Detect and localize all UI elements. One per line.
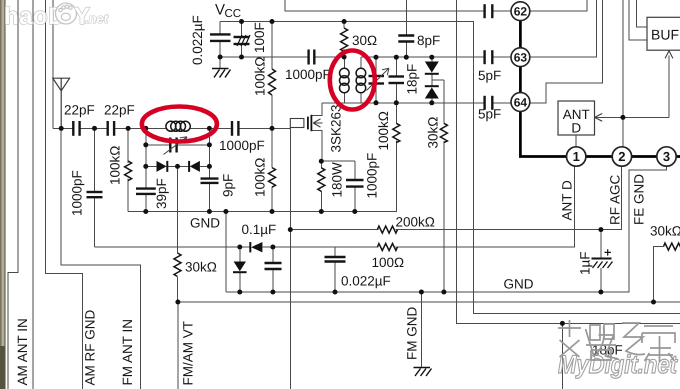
capacitor 5pF pin64 xyxy=(485,96,493,110)
wire gate bead line down xyxy=(289,128,291,389)
wire cap273 top lead xyxy=(272,247,274,263)
wire 180W bottom lead xyxy=(320,191,322,212)
pin 3 xyxy=(657,147,676,166)
wire drop below cap to 100ohm row xyxy=(94,197,96,247)
wire 5pF64 to pin64 xyxy=(492,102,511,104)
svg-text:BUFF: BUFF xyxy=(651,27,680,43)
wire varactor row left xyxy=(146,165,157,167)
capacitor 18pF xyxy=(389,77,405,84)
svg-text:.net: .net xyxy=(85,11,109,26)
svg-text:RF AGC: RF AGC xyxy=(608,174,623,225)
wire 100F trimmer top lead xyxy=(241,22,243,37)
capacitor at 273 xyxy=(265,263,282,269)
svg-text:1µF: 1µF xyxy=(578,251,593,275)
wire 100k VCC top lead xyxy=(271,22,273,70)
capacitor 0.022uF bottom xyxy=(325,257,346,262)
wire source row xyxy=(321,160,355,162)
svg-text:AM ANT IN: AM ANT IN xyxy=(15,318,30,385)
wire var-cap bottom xyxy=(375,84,377,103)
capacitor 22pF #1 xyxy=(73,121,79,136)
svg-text:100kΩ: 100kΩ xyxy=(108,146,123,185)
svg-text:V: V xyxy=(215,2,225,19)
wire varactor pair mid link xyxy=(431,74,433,86)
svg-text:1000pF: 1000pF xyxy=(70,170,85,216)
resistor 100k VCC upper xyxy=(269,69,276,95)
svg-text:GND: GND xyxy=(504,277,534,292)
wire tank right vertical xyxy=(208,128,210,178)
wire cap1 to cap2 xyxy=(80,127,108,129)
svg-text:100kΩ: 100kΩ xyxy=(376,111,391,150)
resistor 30k right edge xyxy=(664,243,680,250)
wire FM ANT IN bus xyxy=(61,128,140,389)
capacitor 5pF pin62 xyxy=(485,4,493,18)
diode on 100ohm row xyxy=(250,242,262,252)
resistor 100k lower xyxy=(269,168,276,188)
svg-text:39pF: 39pF xyxy=(154,178,169,209)
wire trimmer row right xyxy=(177,144,210,146)
varactor top right pair xyxy=(425,62,439,74)
svg-text:FM/AM VT: FM/AM VT xyxy=(181,321,196,386)
wire coil to 1000pF xyxy=(190,127,232,129)
wire 1000pF antenna drop xyxy=(94,128,96,192)
varactor D2 right xyxy=(189,161,200,172)
wire 1uF top lead xyxy=(600,230,602,259)
wire RF AGC line xyxy=(622,0,624,147)
wire 18pF top xyxy=(395,57,397,76)
resistor 30ohm xyxy=(341,28,348,52)
varactor to gnd xyxy=(233,262,247,273)
pin 62 xyxy=(511,2,530,21)
svg-text:0.022µF: 0.022µF xyxy=(341,274,391,289)
wire source cap bottom lead xyxy=(354,187,356,212)
resistor 30k varactor right xyxy=(440,123,447,142)
wire 30k varline upper xyxy=(443,80,445,123)
wire varactor tap to 30k xyxy=(432,79,444,81)
wire 5pF63 to pin63 xyxy=(492,56,511,58)
svg-text:100kΩ: 100kΩ xyxy=(253,57,268,96)
wire 100k(18p) to 64 rail xyxy=(395,103,397,124)
svg-text:D: D xyxy=(571,121,581,136)
wire var-cap drop xyxy=(375,57,377,76)
wire 64 drain rail xyxy=(322,102,485,104)
watermark CJK shuma zhijia xyxy=(558,320,675,362)
svg-text:FM ANT IN: FM ANT IN xyxy=(120,319,135,386)
capacitor 5pF pin63 xyxy=(485,50,493,64)
wire bus 2 xyxy=(32,0,34,389)
wire cap2 to coil L1 xyxy=(114,127,166,129)
svg-text:FE GND: FE GND xyxy=(632,174,647,225)
wire pin64 right riser xyxy=(530,0,603,103)
resistor 100k tank xyxy=(125,161,132,181)
wire trimmer row left xyxy=(146,144,171,146)
resistor 180W xyxy=(318,168,325,191)
wire 0.022uF bottom lead xyxy=(334,262,336,293)
varactor D1 left xyxy=(157,161,168,172)
wire 0.022uF top lead xyxy=(334,247,336,257)
wire left winding bottom lead xyxy=(343,94,345,103)
svg-text:22pF: 22pF xyxy=(104,103,135,118)
svg-text:30Ω: 30Ω xyxy=(352,33,377,48)
inductor L1 FM coil xyxy=(166,121,190,131)
BUFF box xyxy=(647,17,680,58)
transformer left winding xyxy=(340,68,350,93)
svg-text:3SK263: 3SK263 xyxy=(329,104,344,152)
capacitor 8pF xyxy=(398,36,414,42)
svg-text:30kΩ: 30kΩ xyxy=(650,224,680,239)
svg-text:0.022µF: 0.022µF xyxy=(190,15,205,65)
resistor 30k varactor tap xyxy=(174,253,181,276)
wire 1uF bottom lead xyxy=(600,268,602,292)
capacitor 1000pF antenna xyxy=(87,192,103,197)
highlight ellipse 2 red xyxy=(330,51,375,110)
ground below 0.022uF xyxy=(212,69,231,78)
trimmer capacitor tank xyxy=(170,138,176,153)
wire 100-ohm row right part to pin1 xyxy=(396,166,575,247)
wire 18pF bottom drop xyxy=(561,323,563,389)
pin 1 xyxy=(567,147,586,166)
variable cap arrow xyxy=(367,68,390,90)
wire cap62 to pin62 xyxy=(492,10,511,12)
resistor 200k xyxy=(377,226,397,233)
wire 100k tank drop xyxy=(127,128,129,163)
wire drain riser xyxy=(311,103,322,116)
wire AM ANT IN bus xyxy=(8,0,18,389)
transistor Q1 3SK263 xyxy=(290,115,322,131)
svg-text:30kΩ: 30kΩ xyxy=(426,117,441,149)
trimmer capacitor 100F xyxy=(234,37,250,44)
svg-text:1000pF: 1000pF xyxy=(219,138,265,153)
svg-text:18pF: 18pF xyxy=(405,64,420,95)
svg-text:CC: CC xyxy=(225,8,242,20)
capacitor 1000pF source xyxy=(346,180,364,187)
wire BUFF bottom arrow line xyxy=(668,56,670,118)
scan edge beige strip xyxy=(0,0,5,389)
wire BUFF feed 1 xyxy=(629,0,647,40)
wire 30k right edge xyxy=(654,247,664,302)
pin 63 xyxy=(511,48,530,67)
svg-text:GND: GND xyxy=(190,216,220,231)
wire tank right below 9pF xyxy=(208,183,210,212)
capacitor 39pF xyxy=(136,189,156,194)
wire FM/AM VT line down xyxy=(177,302,179,389)
svg-text:9pF: 9pF xyxy=(221,174,236,197)
wire varactor pair bottom lead xyxy=(431,99,433,103)
wire FM GND drop xyxy=(420,292,422,367)
capacitor 0.022uF VCC xyxy=(210,34,231,41)
capacitor 9pF xyxy=(201,179,219,183)
trimmer arrow xyxy=(164,137,188,155)
wire VCC left leg to 0.022uF xyxy=(219,22,221,35)
ANT D box xyxy=(558,101,602,135)
antenna xyxy=(53,78,70,128)
wire 200k row right to pin2 xyxy=(396,167,622,230)
wire 30ohm bottom lead xyxy=(343,49,345,57)
pin 64 xyxy=(511,93,530,112)
wire source lead xyxy=(311,130,322,161)
wire FM/AM VT rail xyxy=(178,301,680,303)
svg-text:100Ω: 100Ω xyxy=(372,255,405,270)
wire 30k varline lower to 292 rail xyxy=(443,141,445,292)
pin 2 xyxy=(612,147,631,166)
svg-text:1000pF: 1000pF xyxy=(365,153,380,199)
wire bypass cap to 30ohm node xyxy=(314,56,344,58)
capacitor 1000pF gate xyxy=(232,121,238,136)
wire FM antenna line xyxy=(53,127,73,129)
wire 8pF top xyxy=(405,0,407,36)
wire gate node down to 100k2 xyxy=(271,128,273,167)
wire 100F trimmer bottom lead xyxy=(241,44,243,57)
bold spine 62-63-64 to pins 1-3 xyxy=(520,20,680,157)
wire cap273 bottom lead xyxy=(272,269,274,292)
wire 1000pF to gate bead xyxy=(238,127,290,129)
highlight ellipse 1 red xyxy=(142,107,217,142)
wire 100-ohm row left part xyxy=(95,246,251,248)
wire GND 292 rail with FE GND riser xyxy=(226,166,667,292)
wire bus 4 to antenna node xyxy=(52,0,54,128)
wire pin63 right riser xyxy=(530,0,597,57)
svg-text:180W: 180W xyxy=(330,162,345,198)
svg-text:1000pF: 1000pF xyxy=(285,67,331,82)
wire varactor-to-gnd top lead xyxy=(239,247,241,262)
wire ANT D box lead xyxy=(575,135,577,147)
wire below 100k to GND rail xyxy=(127,179,129,212)
svg-text:0.1µF: 0.1µF xyxy=(242,222,277,237)
wire top line to 323 rail xyxy=(457,0,680,323)
svg-text:100F: 100F xyxy=(252,22,267,53)
ground FM GND xyxy=(414,368,432,377)
wire 63 rail xyxy=(361,56,485,58)
wire VCC bypass rail xyxy=(220,56,309,58)
svg-text:200kΩ: 200kΩ xyxy=(396,215,435,230)
capacitor 1000pF VCC bypass xyxy=(309,50,315,65)
capacitor 22pF #2 xyxy=(108,121,114,136)
wire VCC rail and right drop to 313 rail xyxy=(220,22,680,314)
wire GND rail xyxy=(128,141,396,212)
wire 8pF bottom xyxy=(405,42,407,58)
wire varactor-to-gnd bottom lead xyxy=(239,272,241,292)
wire AM RF GND bus xyxy=(46,0,83,389)
svg-text:8pF: 8pF xyxy=(417,33,440,48)
svg-text:100kΩ: 100kΩ xyxy=(253,158,268,197)
wire BUFF feed 2 xyxy=(637,0,648,27)
wire varactor row center xyxy=(167,165,189,167)
watermark haoDIY.net xyxy=(4,3,109,30)
svg-text:ANT D: ANT D xyxy=(560,180,575,221)
wire GND to 292 rail link xyxy=(225,212,227,293)
resistor 100k 18p net xyxy=(393,123,400,142)
wire pin62 right riser xyxy=(530,0,587,11)
wire source cap top lead xyxy=(354,161,356,180)
svg-text:30kΩ: 30kΩ xyxy=(185,260,217,275)
wire tank left below 39pF xyxy=(145,194,147,212)
wire AGC arrow branch xyxy=(595,116,669,118)
svg-text:FM GND: FM GND xyxy=(405,307,420,360)
wire 30k to VT rail xyxy=(177,277,179,302)
svg-text:5pF: 5pF xyxy=(478,107,501,122)
wire 180W top lead xyxy=(320,161,322,168)
wire 200k row left xyxy=(290,229,378,231)
wire 100-ohm row mid part xyxy=(262,246,378,248)
svg-text:5pF: 5pF xyxy=(478,68,501,83)
wire left winding top lead xyxy=(343,57,345,68)
transformer right winding xyxy=(356,68,366,93)
wire right winding bottom lead xyxy=(360,94,362,103)
wire right winding top lead xyxy=(360,57,362,68)
varactor bottom right pair xyxy=(425,86,439,98)
wire varactor tap down to 30k xyxy=(177,166,179,253)
wire 100k2 to GND rail xyxy=(271,187,273,212)
wire 0.022uF to gnd node xyxy=(219,41,221,69)
wire 18pF cap link xyxy=(395,83,397,103)
wire 30ohm top lead xyxy=(343,22,345,29)
capacitor 1uF electrolytic xyxy=(592,249,613,268)
wire varactor row right xyxy=(200,165,210,167)
resistor 100ohm xyxy=(377,244,397,251)
svg-text:22pF: 22pF xyxy=(64,103,95,118)
wire tank left vertical xyxy=(145,128,147,188)
svg-text:AM RF GND: AM RF GND xyxy=(83,310,98,386)
wire varactor pair top lead xyxy=(431,57,433,61)
wire 100k VCC to gate node xyxy=(271,95,273,128)
variable capacitor mid xyxy=(369,76,385,84)
wire pin62 left xyxy=(285,0,484,11)
